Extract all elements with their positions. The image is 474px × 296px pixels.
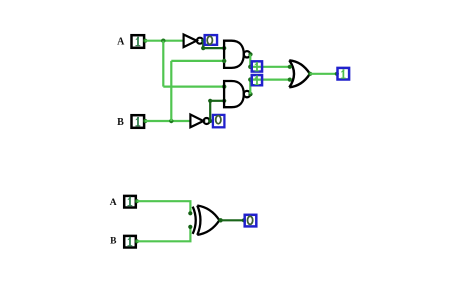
node XOR output xyxy=(218,218,222,222)
probe pin on NAND2 output, value 1 xyxy=(252,75,262,85)
svg-text:B: B xyxy=(110,237,117,247)
wire B to XOR (value 1) xyxy=(137,228,191,241)
node output pin xyxy=(335,72,339,76)
node NOT1 output xyxy=(201,39,205,43)
node NOT2 output xyxy=(208,119,212,123)
node NAND2 bottom input xyxy=(222,99,226,103)
wire A horizontal (value 1) xyxy=(145,40,184,42)
probe pin on NOT1 output, value 0 xyxy=(205,35,217,45)
node at probe 1 xyxy=(248,65,252,69)
node OR top input xyxy=(288,65,292,69)
junction node on wire B xyxy=(169,119,173,123)
node OR output xyxy=(308,72,312,76)
probe pin on NAND1 output, value 1 xyxy=(252,61,262,71)
svg-text:A: A xyxy=(117,37,125,48)
wire XOR output to output pin (value 0) xyxy=(221,219,244,221)
wire NAND1 output down (value 1) xyxy=(249,54,251,66)
node NAND2 top input xyxy=(222,84,226,88)
wire OR output to output pin (value 1) xyxy=(310,73,337,75)
wire NAND2 output to OR bottom input (value 1) xyxy=(250,78,289,80)
svg-text:A: A xyxy=(110,198,117,208)
wire NOT2 output to NAND2 bottom input (value 0) xyxy=(210,100,224,102)
wire NOT1 output down (value 0) xyxy=(202,41,204,48)
node NAND2 output xyxy=(248,92,252,96)
node NAND1 output xyxy=(248,52,252,56)
input pin B (top), value 1 xyxy=(132,115,148,128)
wire NAND2 output up (value 1) xyxy=(249,80,251,95)
node corner xyxy=(201,46,205,50)
wire NOT2 output up (value 0) xyxy=(209,101,211,121)
wire B vertical branch up (value 1) xyxy=(170,61,172,121)
node XOR top input xyxy=(188,211,192,215)
input pin A (bottom), value 1 xyxy=(124,196,139,208)
node XOR bottom input xyxy=(188,225,192,229)
node output pin (bottom) xyxy=(242,218,246,222)
node corner xyxy=(208,99,212,103)
XOR gate G4 xyxy=(193,206,220,235)
svg-text:B: B xyxy=(117,117,124,128)
wire A vertical branch down (value 1) xyxy=(162,41,164,87)
output pin (top circuit), value 1 xyxy=(338,68,350,80)
input pin A (top), value 1 xyxy=(132,35,148,48)
OR gate G3 xyxy=(289,60,310,87)
node OR bottom input xyxy=(288,78,292,82)
node at probe 2 xyxy=(248,77,252,81)
NOT gate U1 (inverter for A) xyxy=(184,35,203,48)
NAND gate G2 xyxy=(224,81,250,107)
probe pin on NOT2 output, value 0 xyxy=(213,115,225,127)
input pin B (bottom), value 1 xyxy=(124,236,139,248)
output pin (bottom circuit), value 0 xyxy=(245,215,257,227)
wire B to NAND1 bottom input (value 1) xyxy=(171,60,224,62)
NAND gate G1 xyxy=(224,41,250,68)
wire NAND1 output to OR top input (value 1) xyxy=(250,66,289,68)
junction node on wire A xyxy=(161,39,165,43)
wire A to XOR (value 1) xyxy=(137,201,191,212)
node NAND1 top input xyxy=(222,46,226,50)
wire NOT1 output to NAND1 top input (value 0) xyxy=(203,47,224,49)
node NAND1 bottom input xyxy=(222,59,226,63)
wire B horizontal (value 1) xyxy=(145,120,191,122)
wire A to NAND2 top input (value 1) xyxy=(163,85,224,87)
NOT gate U2 (inverter for B) xyxy=(190,115,209,128)
